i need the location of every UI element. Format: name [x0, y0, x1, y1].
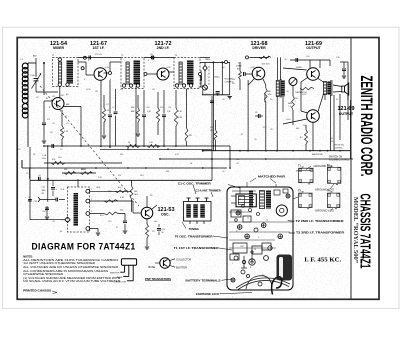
svg-text:MODEL “ROYAL 500”: MODEL “ROYAL 500” — [352, 197, 359, 263]
svg-text:ZENITH RADIO CORP.: ZENITH RADIO CORP. — [357, 76, 376, 177]
